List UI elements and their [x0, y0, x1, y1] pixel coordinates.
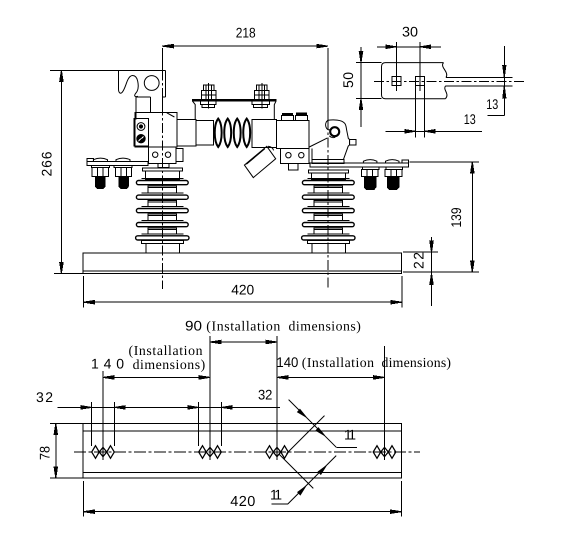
- slot 4 center extension: [384, 346, 386, 460]
- dimension 420 plan extension left: [82, 481, 84, 517]
- dimension 218 line: [162, 45, 327, 47]
- slot3 leader L2: [288, 456, 336, 504]
- catch arm upper diagonal: [309, 138, 327, 147]
- base plate: [83, 253, 402, 274]
- detail bracket break line: [443, 63, 447, 99]
- dimension 90 line: [210, 341, 277, 343]
- plan plate inner bottom line: [83, 471, 402, 473]
- left insulator shed 2 main: [136, 195, 188, 199]
- svg-text:13: 13: [464, 111, 476, 127]
- neck right line: [162, 97, 164, 113]
- right terminal stud 1: [365, 177, 376, 190]
- catch cam left jaw: [326, 120, 331, 130]
- dimension 50 extension top: [356, 62, 382, 64]
- slot3 diagonal S3: [279, 454, 313, 488]
- hook plate outline: [119, 70, 139, 96]
- dimension 420 plan extension right: [401, 481, 403, 517]
- detail bracket body: [382, 63, 446, 99]
- detail square hole 2: [416, 77, 425, 86]
- catch tab: [350, 139, 356, 145]
- svg-text:420: 420: [231, 282, 254, 298]
- dimension 266 extension bottom: [54, 273, 83, 275]
- dimension 30 line: [377, 46, 441, 48]
- right terminal washer 1: [363, 167, 380, 169]
- operating flag: [244, 146, 275, 177]
- svg-text:266: 266: [39, 151, 55, 176]
- svg-text:420: 420: [230, 494, 255, 510]
- left arm: [177, 120, 196, 146]
- slot 2 center extension: [209, 336, 211, 460]
- right insulator base block: [312, 244, 346, 254]
- dimension 420 plan line: [83, 511, 401, 513]
- slot3 leader underline bottom: [272, 503, 288, 505]
- catch cam lower curl: [329, 136, 335, 138]
- svg-text:dimensions): dimensions): [133, 357, 206, 372]
- slot3 diagonal S1: [289, 400, 337, 448]
- left insulator bottom flange: [142, 240, 184, 243]
- right insulator shed 1 main: [302, 181, 354, 185]
- hook plate finger line: [135, 97, 137, 120]
- svg-text:dimensions): dimensions): [289, 318, 361, 333]
- left insulator shed 5 main: [136, 236, 189, 240]
- detail square hole 1: [392, 77, 401, 86]
- detail strip bottom: [446, 85, 513, 87]
- catch base plate: [312, 159, 344, 163]
- right terminal nut 1: [361, 169, 378, 176]
- SECTION: top-right detail view: [340, 23, 524, 137]
- left clamp lower plate: [149, 147, 176, 163]
- left insulator shed 5 step line: [141, 233, 183, 235]
- left terminal stud 2: [119, 176, 128, 188]
- left clamp lower plate hole 1: [153, 152, 158, 157]
- left clamp bolt lower: [137, 135, 145, 143]
- svg-text:(Installation: (Installation: [302, 355, 374, 370]
- right insulator core 2: [314, 201, 343, 207]
- dimension 50 extension bottom: [356, 98, 382, 100]
- left insulator shed 1 main: [136, 181, 188, 185]
- left insulator shed 4 step line: [141, 220, 183, 222]
- top bracket left edge: [193, 101, 196, 119]
- right tube: [252, 119, 276, 147]
- dimension 266 extension top: [50, 69, 119, 71]
- bracket bolt 2: [252, 83, 269, 109]
- left insulator core 2: [148, 201, 177, 207]
- SECTION: front view dimensions: [39, 25, 479, 308]
- SECTION: insulators: [136, 168, 355, 253]
- svg-text:(Installation: (Installation: [206, 318, 280, 333]
- slot 2 symbol: [199, 446, 222, 459]
- dimension 22 extension top: [403, 251, 438, 253]
- left tube: [196, 121, 214, 146]
- svg-text:22: 22: [411, 252, 427, 269]
- right insulator shed 5 step line: [307, 233, 349, 235]
- left terminal nut 1: [92, 168, 109, 177]
- svg-text:dimensions): dimensions): [382, 355, 452, 370]
- right terminal washer 2: [386, 167, 403, 169]
- plan plate outline: [83, 424, 402, 479]
- right insulator shed 4 main: [302, 223, 354, 227]
- dimension 50 line: [360, 47, 362, 127]
- svg-text:(Installation: (Installation: [129, 343, 203, 358]
- dimension 13 vertical line: [503, 46, 505, 116]
- slot3 leader L2 arrow 2: [318, 466, 326, 474]
- slot3 diagonal S1 arrow 2: [316, 428, 324, 436]
- SECTION: front elevation view: [83, 48, 409, 289]
- right terminal stud 2: [387, 177, 399, 190]
- left terminal plate: [87, 162, 148, 166]
- dimension 266 line: [60, 70, 62, 273]
- neck left line: [149, 97, 151, 113]
- hook plate hole: [144, 76, 159, 91]
- svg-text:11: 11: [270, 487, 282, 503]
- dimension 32 shared line: [58, 406, 280, 408]
- hook plate bottom edges: [137, 96, 151, 98]
- left clamp step block: [176, 149, 183, 162]
- right insulator cap top: [309, 170, 349, 173]
- SECTION: bottom plan view: [36, 318, 451, 517]
- svg-text:13: 13: [486, 96, 498, 112]
- svg-text:140: 140: [276, 354, 298, 370]
- left insulator shed 3 step line: [141, 206, 183, 208]
- bellows ridge 3: [234, 119, 241, 147]
- plan centerline: [74, 451, 420, 453]
- detail hole 1 tick: [396, 42, 398, 91]
- right platform support: [308, 148, 310, 163]
- bellows ridge 2: [224, 119, 231, 147]
- dimension 420 extension right: [401, 276, 403, 308]
- left insulator core 1: [148, 186, 177, 193]
- base plate inner line: [83, 270, 402, 272]
- left terminal plate end tab: [87, 158, 93, 161]
- catch arm lower edge: [311, 148, 313, 159]
- left pole centerline: [161, 48, 163, 70]
- dimension 78 extension bottom: [50, 477, 83, 479]
- right clamp lower plate: [280, 148, 309, 163]
- right clamp bottom tab: [289, 164, 298, 170]
- right terminal plate: [310, 163, 409, 167]
- catch pin: [330, 127, 339, 136]
- svg-text:139: 139: [448, 207, 464, 227]
- left terminal washer 1: [92, 166, 110, 168]
- slot3 leader L2 arrow 1: [298, 487, 306, 495]
- dimension 420 line: [83, 301, 402, 303]
- svg-text:11: 11: [344, 427, 356, 443]
- bracket bolt 1: [200, 83, 216, 109]
- left clamp lower plate hole 2: [165, 152, 170, 157]
- left terminal washer 2: [114, 166, 132, 168]
- left insulator shed 4 main: [136, 223, 188, 227]
- slot 1 symbol: [92, 446, 115, 459]
- right pole centerline: [327, 48, 329, 120]
- right insulator core 3: [314, 214, 343, 221]
- svg-text:140: 140: [91, 356, 124, 372]
- dimension 140 right line: [277, 376, 385, 378]
- top bracket right edge: [274, 101, 276, 119]
- right insulator shed 4 step line: [307, 220, 349, 222]
- svg-text:90: 90: [185, 318, 202, 334]
- left insulator shed 3 main: [136, 209, 188, 213]
- right terminal cap 2: [386, 160, 400, 163]
- slot 3 symbol: [266, 446, 289, 459]
- dimension 22 line: [431, 237, 433, 306]
- right insulator shed 2 step line: [307, 192, 349, 194]
- dimension 139 line: [471, 162, 473, 272]
- dimension 13 horizontal extensions: [414, 86, 416, 138]
- detail centerline: [374, 80, 524, 82]
- left insulator core 3: [148, 214, 177, 221]
- dimension 13 vertical leader: [487, 115, 504, 117]
- dimension 139 extension bottom: [403, 271, 479, 273]
- right insulator cap body: [312, 173, 346, 180]
- slot3 leader horizontal top: [336, 447, 357, 449]
- right insulator bottom flange: [308, 240, 350, 243]
- left insulator shed 2 step line: [141, 192, 183, 194]
- detail hole 2 tick: [419, 42, 421, 91]
- svg-text:78: 78: [37, 446, 53, 460]
- left clamp chamfer: [167, 113, 175, 117]
- dimension 78 line: [55, 424, 57, 479]
- detail strip top: [446, 77, 512, 79]
- svg-text:218: 218: [236, 25, 256, 41]
- right insulator shed 5 main: [302, 236, 355, 240]
- dimension 13 horizontal line: [386, 130, 482, 132]
- left clamp bottom tab: [158, 163, 169, 167]
- right lower plate hole 2: [299, 153, 304, 158]
- right clamp block: [277, 121, 309, 149]
- slot2 end extensions: [197, 402, 199, 446]
- right insulator shed 3 main: [302, 209, 354, 213]
- dimension 78 extension top: [50, 423, 83, 425]
- svg-text:50: 50: [340, 72, 356, 88]
- right clamp bolt cap 1: [282, 116, 294, 121]
- right insulator shed 3 step line: [307, 206, 349, 208]
- dimension 139 extension top: [410, 161, 479, 163]
- left terminal cap 2: [116, 158, 130, 161]
- right terminal plate end tab: [402, 160, 408, 163]
- right lower plate hole 1: [286, 153, 291, 158]
- right insulator shed 2 main: [302, 195, 354, 199]
- left insulator shed 1 step line: [141, 178, 183, 180]
- right insulator shed 1 step line: [307, 178, 349, 180]
- right insulator core 1: [314, 186, 343, 193]
- hook plate top edge: [119, 69, 166, 71]
- right clamp bolt cap 2: [295, 116, 307, 121]
- left terminal stud 1: [96, 176, 105, 188]
- svg-text:30: 30: [402, 23, 418, 39]
- slot3 diagonal S1 arrow 1: [298, 409, 306, 417]
- svg-text:32: 32: [36, 389, 53, 405]
- left terminal cap 1: [93, 158, 107, 161]
- flag link: [268, 146, 274, 150]
- dimension 420 extension left: [82, 276, 84, 308]
- left insulator cap top: [143, 168, 183, 171]
- left insulator cap body: [146, 171, 180, 180]
- slot 4 symbol: [373, 446, 396, 459]
- svg-text:32: 32: [258, 387, 273, 403]
- slot1 end extensions: [90, 402, 92, 446]
- right terminal nut 2: [385, 169, 402, 176]
- left insulator core 4: [148, 228, 177, 234]
- slot 1 center extension: [102, 371, 104, 460]
- hook plate right edge: [165, 70, 167, 97]
- left clamp bolt upper: [137, 123, 145, 131]
- dimension 140 left line: [103, 376, 210, 378]
- catch cam body: [328, 120, 350, 159]
- right insulator core 4: [314, 228, 343, 234]
- right terminal cap 1: [363, 160, 377, 163]
- left clamp end plate: [134, 119, 149, 146]
- flag inner line: [246, 149, 264, 165]
- slot 3 center extension: [276, 336, 278, 460]
- plan plate inner top line: [83, 430, 402, 432]
- bellows ridge 1: [215, 119, 222, 147]
- bellows ridge 4: [243, 119, 250, 147]
- left clamp block: [135, 113, 177, 147]
- left insulator base block: [146, 244, 180, 254]
- slot3 diagonal S2: [287, 416, 325, 454]
- left terminal nut 2: [116, 168, 132, 177]
- top bracket bar: [193, 99, 276, 101]
